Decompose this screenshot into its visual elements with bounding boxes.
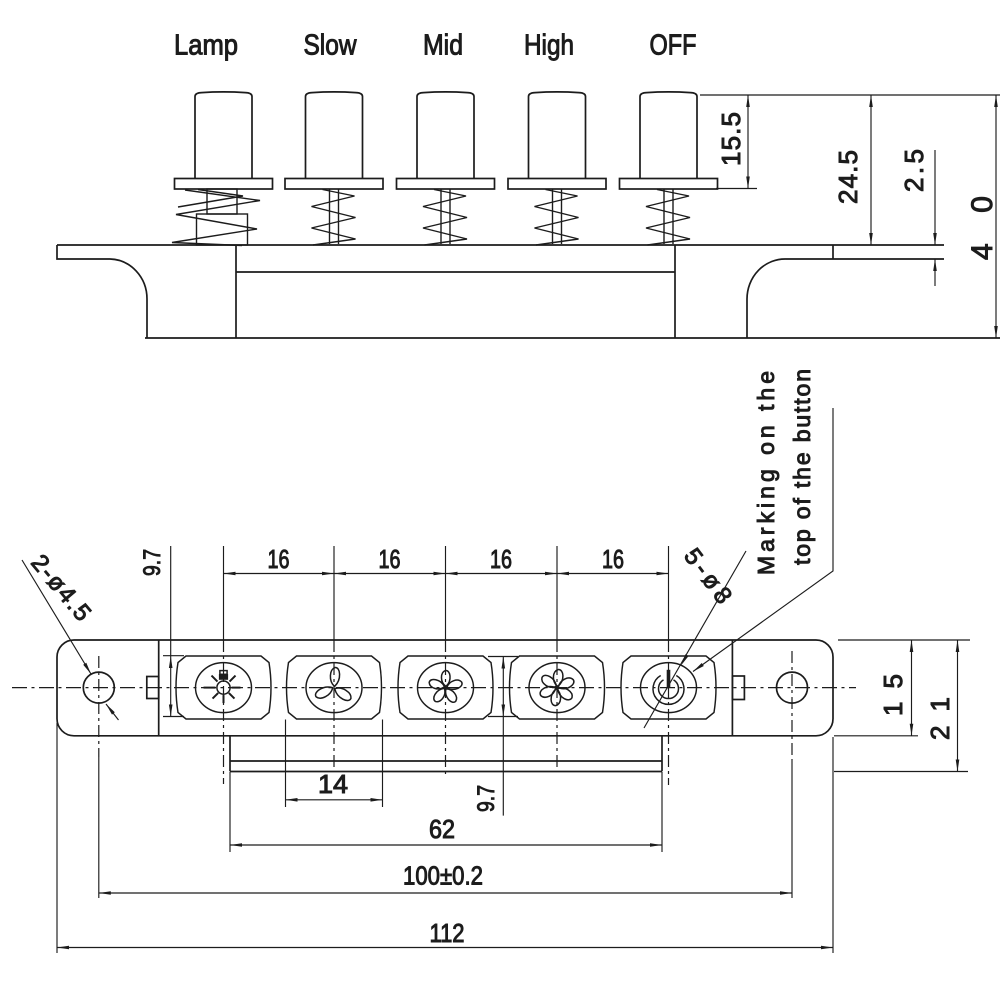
svg-text:15: 15 <box>878 674 908 716</box>
svg-text:2.5: 2.5 <box>899 149 929 192</box>
svg-text:2-ø4.5: 2-ø4.5 <box>25 550 96 627</box>
svg-text:14: 14 <box>318 769 348 799</box>
svg-text:OFF: OFF <box>650 30 697 62</box>
svg-text:16: 16 <box>490 544 512 574</box>
svg-text:62: 62 <box>429 814 455 844</box>
svg-text:16: 16 <box>602 544 624 574</box>
svg-text:112: 112 <box>430 918 465 948</box>
svg-text:9.7: 9.7 <box>139 549 166 576</box>
svg-text:40: 40 <box>966 196 999 260</box>
svg-text:15.5: 15.5 <box>716 112 746 166</box>
svg-text:9.7: 9.7 <box>473 785 500 812</box>
svg-text:100±0.2: 100±0.2 <box>403 861 483 891</box>
svg-text:Slow: Slow <box>304 30 358 62</box>
svg-text:top of the button: top of the button <box>789 369 815 565</box>
svg-text:16: 16 <box>268 544 290 574</box>
svg-text:16: 16 <box>379 544 401 574</box>
svg-text:21: 21 <box>925 697 955 740</box>
svg-text:5-ø8: 5-ø8 <box>678 543 737 609</box>
svg-text:Marking on the: Marking on the <box>753 371 779 575</box>
svg-text:24.5: 24.5 <box>833 150 863 204</box>
svg-text:Lamp: Lamp <box>174 30 238 62</box>
svg-text:High: High <box>524 30 574 62</box>
svg-text:Mid: Mid <box>423 30 463 62</box>
